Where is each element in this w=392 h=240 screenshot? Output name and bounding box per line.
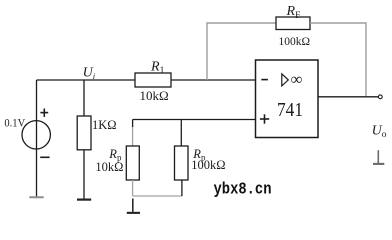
resistor RF xyxy=(276,17,310,30)
svg-text:741: 741 xyxy=(277,99,303,121)
svg-text:ybx8.cn: ybx8.cn xyxy=(214,180,272,199)
wire: feedback right (gray) xyxy=(310,23,366,97)
wire: bottom bus (gray) xyxy=(133,195,182,197)
wire: feedback left vertical (gray) xyxy=(207,23,276,80)
triangle gain symbol xyxy=(282,74,289,86)
wire: op-amp + input xyxy=(133,119,256,121)
plus input symbol xyxy=(260,114,269,123)
wire: Rp 100k bottom xyxy=(181,180,183,196)
svg-text:10kΩ: 10kΩ xyxy=(95,160,123,174)
voltage source V1 0.1V xyxy=(22,121,50,149)
minus input symbol xyxy=(261,79,268,81)
svg-text:100kΩ: 100kΩ xyxy=(279,36,311,48)
resistor 1KΩ xyxy=(77,116,91,150)
svg-text:∞: ∞ xyxy=(291,69,303,88)
svg-text:0.1V: 0.1V xyxy=(4,115,25,129)
wire: 1K resistor to ground xyxy=(83,150,85,199)
resistor Rp 100kΩ xyxy=(175,146,189,180)
ground (Rp bus) xyxy=(132,199,134,212)
wire: op-amp output xyxy=(318,96,378,98)
wire: source vertical xyxy=(36,80,38,197)
wire: down to Rp 10k (black then gray) xyxy=(132,120,134,128)
svg-text:10kΩ: 10kΩ xyxy=(140,88,169,103)
ground (output reference) xyxy=(373,150,384,164)
wire: Rp 10k bottom (gray) xyxy=(132,180,134,196)
wire: Ui node down to 1K resistor xyxy=(83,80,85,116)
svg-text:1KΩ: 1KΩ xyxy=(92,118,117,132)
wire: R1 to op-amp inverting input xyxy=(171,79,256,81)
resistor R1 xyxy=(135,73,171,87)
op-amp U1 741 xyxy=(256,60,319,138)
ground (source) xyxy=(29,196,43,198)
wire: down to Rp 100k xyxy=(180,120,182,147)
resistor Rp 10kΩ xyxy=(126,146,139,180)
wire: top input wire from source to R1 xyxy=(37,79,136,81)
ground (1K resistor) xyxy=(77,199,91,201)
svg-text:100kΩ: 100kΩ xyxy=(191,158,225,172)
output node (open circle) xyxy=(378,95,382,99)
